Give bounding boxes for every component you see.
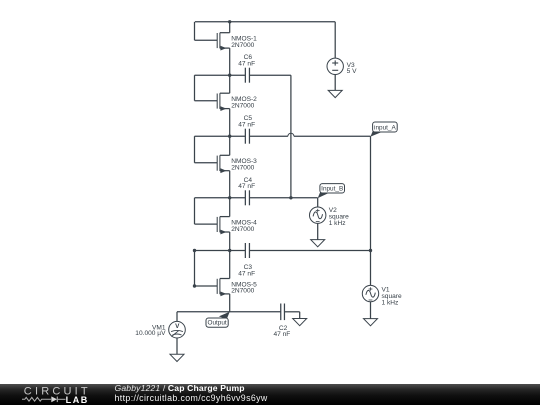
svg-text:5 V: 5 V (347, 68, 357, 75)
svg-text:47 nF: 47 nF (238, 183, 255, 190)
svg-text:10.000 µV: 10.000 µV (135, 330, 166, 337)
svg-text:2N7000: 2N7000 (231, 288, 254, 295)
svg-text:2N7000: 2N7000 (231, 226, 254, 233)
svg-text:47 nF: 47 nF (273, 331, 290, 338)
svg-text:2N7000: 2N7000 (231, 42, 254, 49)
svg-text:Output: Output (208, 320, 227, 327)
svg-text:Input_B: Input_B (321, 186, 343, 193)
svg-text:47 nF: 47 nF (238, 122, 255, 129)
svg-text:Gabby1221 / Cap Charge Pump: Gabby1221 / Cap Charge Pump (115, 383, 245, 393)
svg-text:http://circuitlab.com/cc9yh6vv: http://circuitlab.com/cc9yh6vv9s6yw (115, 393, 268, 403)
svg-text:1 kHz: 1 kHz (329, 220, 346, 227)
svg-text:47 nF: 47 nF (238, 270, 255, 277)
svg-text:LAB: LAB (66, 395, 89, 405)
svg-text:1 kHz: 1 kHz (382, 299, 399, 306)
svg-text:input_A: input_A (374, 125, 396, 132)
svg-text:V: V (175, 323, 180, 330)
svg-text:2N7000: 2N7000 (231, 102, 254, 109)
svg-text:2N7000: 2N7000 (231, 165, 254, 172)
svg-text:47 nF: 47 nF (238, 61, 255, 68)
